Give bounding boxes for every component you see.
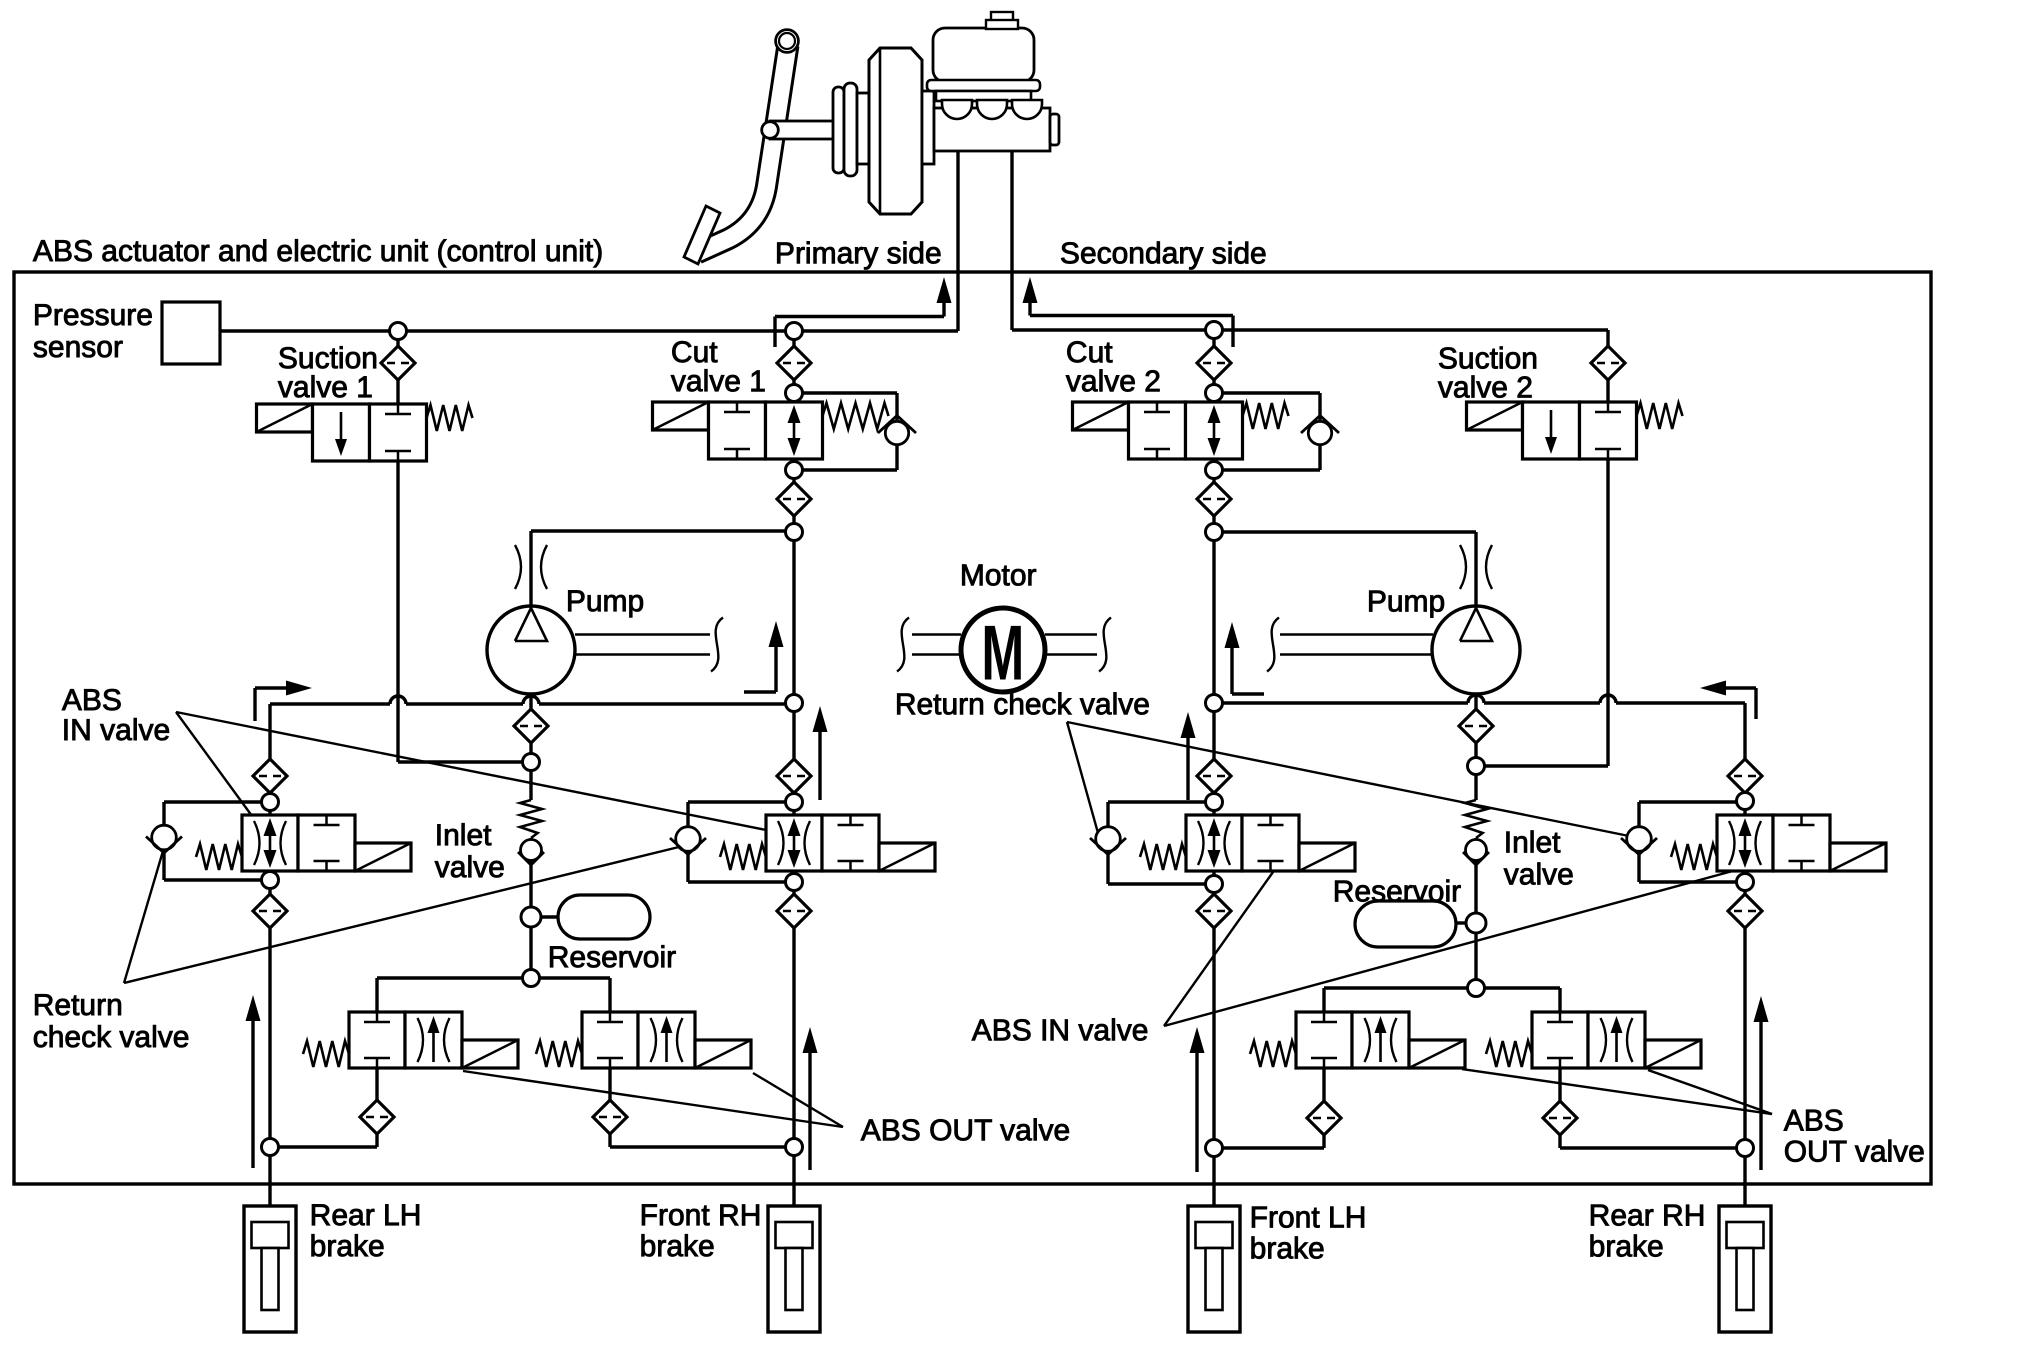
svg-text:ABS OUT valve: ABS OUT valve (861, 1114, 1071, 1147)
svg-text:valve 1: valve 1 (671, 365, 766, 398)
svg-text:ABS IN valve: ABS IN valve (972, 1014, 1149, 1047)
svg-text:Primary side: Primary side (775, 237, 942, 270)
svg-text:IN valve: IN valve (62, 714, 170, 747)
svg-text:Reservoir: Reservoir (548, 941, 676, 974)
svg-text:check valve: check valve (33, 1021, 190, 1054)
svg-text:Front RH: Front RH (640, 1199, 762, 1232)
svg-text:Reservoir: Reservoir (1333, 875, 1461, 908)
svg-text:brake: brake (310, 1230, 385, 1263)
svg-text:ABS: ABS (62, 684, 122, 717)
svg-text:Rear LH: Rear LH (310, 1199, 422, 1232)
svg-text:Pressure: Pressure (33, 299, 153, 332)
svg-text:Motor: Motor (960, 559, 1037, 592)
svg-text:valve 1: valve 1 (278, 371, 373, 404)
svg-text:Inlet: Inlet (1504, 826, 1561, 859)
svg-text:Pump: Pump (566, 585, 644, 618)
svg-text:ABS actuator and electric unit: ABS actuator and electric unit (control … (33, 235, 603, 268)
svg-text:sensor: sensor (33, 331, 123, 364)
svg-text:Front LH: Front LH (1250, 1201, 1367, 1234)
svg-text:Rear RH: Rear RH (1589, 1199, 1706, 1232)
svg-text:Secondary side: Secondary side (1060, 237, 1267, 270)
svg-text:Pump: Pump (1367, 585, 1445, 618)
svg-text:valve 2: valve 2 (1438, 371, 1533, 404)
svg-text:valve: valve (1504, 858, 1574, 891)
svg-text:OUT valve: OUT valve (1784, 1135, 1925, 1168)
svg-text:ABS: ABS (1784, 1104, 1844, 1137)
svg-text:brake: brake (1250, 1232, 1325, 1265)
svg-text:M: M (981, 610, 1024, 697)
svg-text:Return: Return (33, 989, 123, 1022)
svg-text:Inlet: Inlet (435, 819, 492, 852)
svg-text:valve 2: valve 2 (1066, 365, 1161, 398)
svg-text:brake: brake (1589, 1230, 1664, 1263)
svg-text:valve: valve (435, 851, 505, 884)
svg-text:brake: brake (640, 1230, 715, 1263)
